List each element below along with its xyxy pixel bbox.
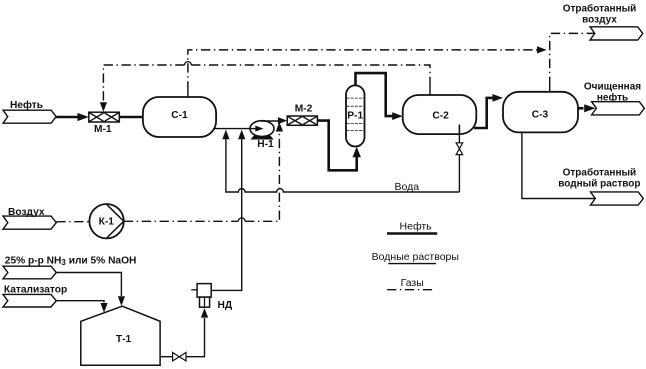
input banner Нефть xyxy=(3,99,56,123)
svg-text:С-1: С-1 xyxy=(171,110,188,121)
svg-text:водный раствор: водный раствор xyxy=(558,178,640,189)
svg-text:Водные растворы: Водные растворы xyxy=(372,251,459,263)
vessel C-3 xyxy=(503,92,578,133)
input banner Катализатор xyxy=(3,284,67,307)
wire M-1 to C-1 xyxy=(119,116,143,119)
mixer М-1 xyxy=(89,112,120,135)
wire C-3 drain to spent solution banner xyxy=(522,132,595,198)
node gas hop over C-1 riser xyxy=(185,62,192,65)
column Р-1 xyxy=(346,85,365,146)
wire НД to pump suction xyxy=(211,130,245,291)
tank Т-1 xyxy=(81,306,160,365)
wire C-1 outlet to pump H-1 xyxy=(213,128,251,130)
node air hop over solution line xyxy=(238,218,245,221)
svg-text:НД: НД xyxy=(218,300,233,311)
svg-text:Катализатор: Катализатор xyxy=(4,284,67,295)
wire K-1 air injection to pump discharge (dash-dot) xyxy=(124,122,283,221)
wire C-2 to C-3 xyxy=(474,94,503,128)
wire T-1 outlet to valve xyxy=(160,356,173,358)
wire C-2 drain to valve xyxy=(458,135,460,143)
wire C-3 to clean oil banner xyxy=(578,104,596,112)
wire gas C-3 top to spent air banner (dash-dot) xyxy=(550,33,595,92)
vessel C-2 xyxy=(403,95,477,134)
input banner 25% р-р NH3 или 5% NaOH xyxy=(3,256,136,279)
output banner Отработанный водный раствор xyxy=(558,167,643,206)
svg-text:С-2: С-2 xyxy=(432,110,449,121)
wire R-1 top to C-2 xyxy=(356,73,403,120)
output banner Очищенная нефть xyxy=(584,82,645,115)
legend Нефть (oil line) xyxy=(387,220,437,233)
svg-text:Нефть: Нефть xyxy=(10,99,43,111)
svg-text:Нефть: Нефть xyxy=(400,220,433,232)
C-2 bottom dip tube stub xyxy=(458,125,460,136)
svg-text:Н-1: Н-1 xyxy=(257,139,274,150)
svg-text:Т-1: Т-1 xyxy=(116,334,132,345)
svg-text:Вода: Вода xyxy=(395,181,420,193)
valve after T-1 xyxy=(173,353,186,361)
input banner Воздух xyxy=(3,207,56,229)
wire air to K-1 (dash-dot) xyxy=(56,221,89,223)
wire gas C-1 top to exhaust header (dash-dot) xyxy=(188,46,547,97)
svg-text:Очищенная: Очищенная xyxy=(584,82,641,93)
svg-text:25% р-р NH3 или 5% NaOH: 25% р-р NH3 или 5% NaOH xyxy=(5,256,137,268)
svg-text:С-3: С-3 xyxy=(532,110,549,121)
wire NaOH solution to T-1 peak xyxy=(56,273,125,306)
svg-text:Газы: Газы xyxy=(401,277,424,289)
wire gas recycle C-2 top to M-1 (dash-dot) xyxy=(100,65,430,112)
wire pump discharge to M-2 xyxy=(261,117,287,124)
output banner Отработанный воздух xyxy=(563,3,643,40)
svg-text:М-1: М-1 xyxy=(94,124,112,135)
svg-text:нефть: нефть xyxy=(597,91,628,103)
legend Газы (gas lines) xyxy=(387,277,435,290)
vessel C-1 xyxy=(143,97,216,137)
valve under C-2 xyxy=(456,143,463,155)
compressor К-1 xyxy=(89,204,123,238)
svg-text:воздух: воздух xyxy=(582,14,617,25)
wire oil feed to M-1 xyxy=(56,113,89,121)
svg-text:Отработанный: Отработанный xyxy=(563,167,637,179)
legend Водные растворы (aqueous lines) xyxy=(372,251,459,263)
svg-text:М-2: М-2 xyxy=(295,103,313,114)
pump Н-1 xyxy=(250,121,274,150)
wire catalyst to T-1 roof xyxy=(56,301,107,313)
wire valve down to water header xyxy=(458,155,460,192)
wire valve to dosing pump НД xyxy=(186,308,208,357)
svg-text:К-1: К-1 xyxy=(99,217,115,228)
mixer М-2 xyxy=(287,103,317,125)
wire water header to pump suction xyxy=(222,130,459,192)
wire M-2 to R-1 bottom xyxy=(317,121,361,171)
svg-text:Воздух: Воздух xyxy=(8,207,45,218)
svg-text:Р-1: Р-1 xyxy=(347,110,363,121)
dosing pump НД xyxy=(191,284,233,311)
svg-text:Отработанный: Отработанный xyxy=(563,3,637,15)
